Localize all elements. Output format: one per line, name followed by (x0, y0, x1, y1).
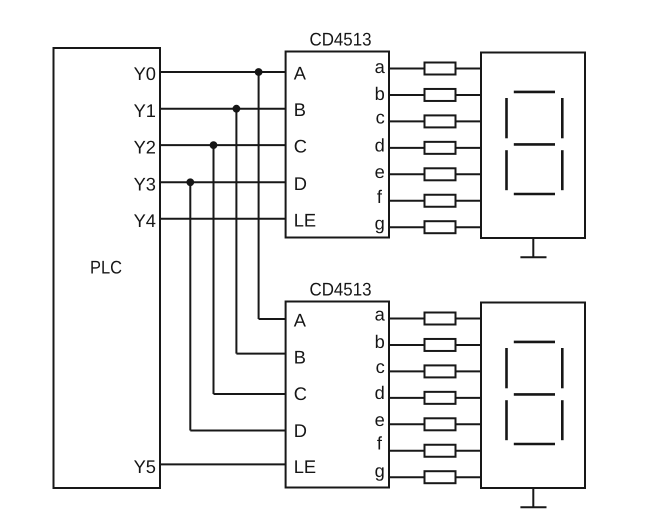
DS1 segment b (561, 98, 564, 138)
svg-text:PLC: PLC (90, 257, 122, 278)
node junction on Y2 (210, 141, 218, 149)
resistor R6 (425, 195, 456, 207)
resistor R3 (425, 115, 456, 127)
wire U1 f to resistor (389, 200, 425, 202)
wire resistor to DS1 a (456, 68, 482, 70)
svg-text:d: d (375, 134, 385, 155)
wire resistor to DS2 a (456, 318, 482, 320)
svg-text:CD4513: CD4513 (310, 29, 372, 50)
resistor R7 (425, 221, 456, 233)
wire U1 b to resistor (389, 94, 425, 96)
wire Y2 from PLC to U1 pin C (160, 144, 286, 146)
DS1 segment g (514, 143, 555, 146)
svg-text:c: c (376, 356, 385, 377)
wire U1 d to resistor (389, 147, 425, 149)
resistor R12 (425, 418, 456, 430)
PLC block (54, 48, 161, 488)
wire Y4 from PLC to U1 pin LE (160, 218, 286, 220)
wire resistor to DS2 d (456, 397, 482, 399)
wire resistor to DS2 f (456, 450, 482, 452)
svg-text:LE: LE (294, 456, 316, 477)
svg-text:Y3: Y3 (134, 174, 156, 195)
DS2 segment f (505, 348, 508, 388)
resistor R13 (425, 445, 456, 457)
svg-text:A: A (294, 63, 307, 84)
DS2 segment a (514, 341, 555, 344)
wire U2 d to resistor (389, 397, 425, 399)
wire U2 b to resistor (389, 344, 425, 346)
svg-text:g: g (375, 213, 385, 234)
svg-text:A: A (294, 310, 307, 331)
7-segment display DS1 (top) (481, 53, 585, 239)
7-segment display DS2 (bottom) (481, 303, 585, 489)
wire Y0 vertical drop to U2 A (258, 72, 260, 319)
wire resistor to DS1 e (456, 173, 482, 175)
svg-text:C: C (294, 136, 307, 157)
ground DS1 (520, 238, 546, 257)
decoder U2 CD4513 (bottom) (286, 302, 389, 488)
svg-text:a: a (375, 304, 386, 325)
DS2 segment b (561, 348, 564, 388)
svg-text:Y2: Y2 (134, 136, 156, 157)
DS2 segment c (561, 400, 564, 440)
wire into U2 pin B (236, 353, 285, 355)
wire resistor to DS1 b (456, 94, 482, 96)
wire U2 f to resistor (389, 450, 425, 452)
DS2 segment e (505, 400, 508, 440)
svg-text:e: e (375, 409, 385, 430)
decoder U1 CD4513 (top) (286, 52, 389, 238)
wire U2 c to resistor (389, 370, 425, 372)
wire into U2 pin D (190, 430, 285, 432)
resistor R2 (425, 89, 456, 101)
wire resistor to DS1 g (456, 226, 482, 228)
svg-text:LE: LE (294, 209, 316, 230)
wire U2 e to resistor (389, 423, 425, 425)
svg-text:D: D (294, 173, 307, 194)
svg-text:D: D (294, 420, 307, 441)
wire Y1 vertical drop to U2 B (235, 109, 237, 354)
wire U1 g to resistor (389, 226, 425, 228)
wire resistor to DS2 b (456, 344, 482, 346)
wire resistor to DS1 f (456, 200, 482, 202)
wire resistor to DS1 c (456, 120, 482, 122)
wire Y1 from PLC to U1 pin B (160, 108, 286, 110)
wire Y0 from PLC to U1 pin A (160, 71, 286, 73)
svg-text:c: c (376, 107, 385, 128)
resistor R11 (425, 392, 456, 404)
svg-text:B: B (294, 99, 306, 120)
wire Y2 vertical drop to U2 C (213, 145, 215, 394)
wire Y3 vertical drop to U2 D (189, 182, 191, 430)
svg-text:a: a (375, 56, 386, 77)
wire U1 c to resistor (389, 120, 425, 122)
DS1 segment a (514, 91, 555, 94)
svg-text:b: b (375, 83, 385, 104)
resistor R14 (425, 471, 456, 483)
wire U2 g to resistor (389, 476, 425, 478)
wire resistor to DS2 e (456, 423, 482, 425)
svg-text:C: C (294, 383, 307, 404)
svg-text:Y5: Y5 (134, 456, 156, 477)
wire Y3 from PLC to U1 pin D (160, 181, 286, 183)
wire resistor to DS2 c (456, 370, 482, 372)
resistor R5 (425, 168, 456, 180)
DS1 segment e (505, 150, 508, 190)
svg-text:Y4: Y4 (134, 210, 156, 231)
resistor R8 (425, 313, 456, 325)
svg-text:CD4513: CD4513 (310, 279, 372, 300)
node junction on Y1 (233, 105, 241, 113)
resistor R10 (425, 365, 456, 377)
resistor R9 (425, 339, 456, 351)
svg-text:e: e (375, 161, 385, 182)
svg-text:Y0: Y0 (134, 63, 156, 84)
wire U1 e to resistor (389, 173, 425, 175)
resistor R1 (425, 63, 456, 75)
ground DS2 (520, 488, 546, 507)
wire Y5 from PLC to U2 pin LE (160, 463, 286, 465)
DS1 segment f (505, 98, 508, 138)
svg-text:g: g (375, 460, 385, 481)
DS2 segment d (514, 443, 555, 446)
DS1 segment d (514, 193, 555, 196)
wire into U2 pin C (214, 393, 286, 395)
wire resistor to DS2 g (456, 476, 482, 478)
wire U1 a to resistor (389, 68, 425, 70)
resistor R4 (425, 142, 456, 154)
wire U2 a to resistor (389, 318, 425, 320)
node junction on Y3 (186, 178, 194, 186)
wire into U2 pin A (259, 318, 286, 320)
DS1 segment c (561, 150, 564, 190)
wire resistor to DS1 d (456, 147, 482, 149)
svg-text:Y1: Y1 (134, 100, 156, 121)
svg-text:b: b (375, 331, 385, 352)
node junction on Y0 (255, 68, 263, 76)
DS2 segment g (514, 393, 555, 396)
svg-text:d: d (375, 382, 385, 403)
svg-text:B: B (294, 347, 306, 368)
